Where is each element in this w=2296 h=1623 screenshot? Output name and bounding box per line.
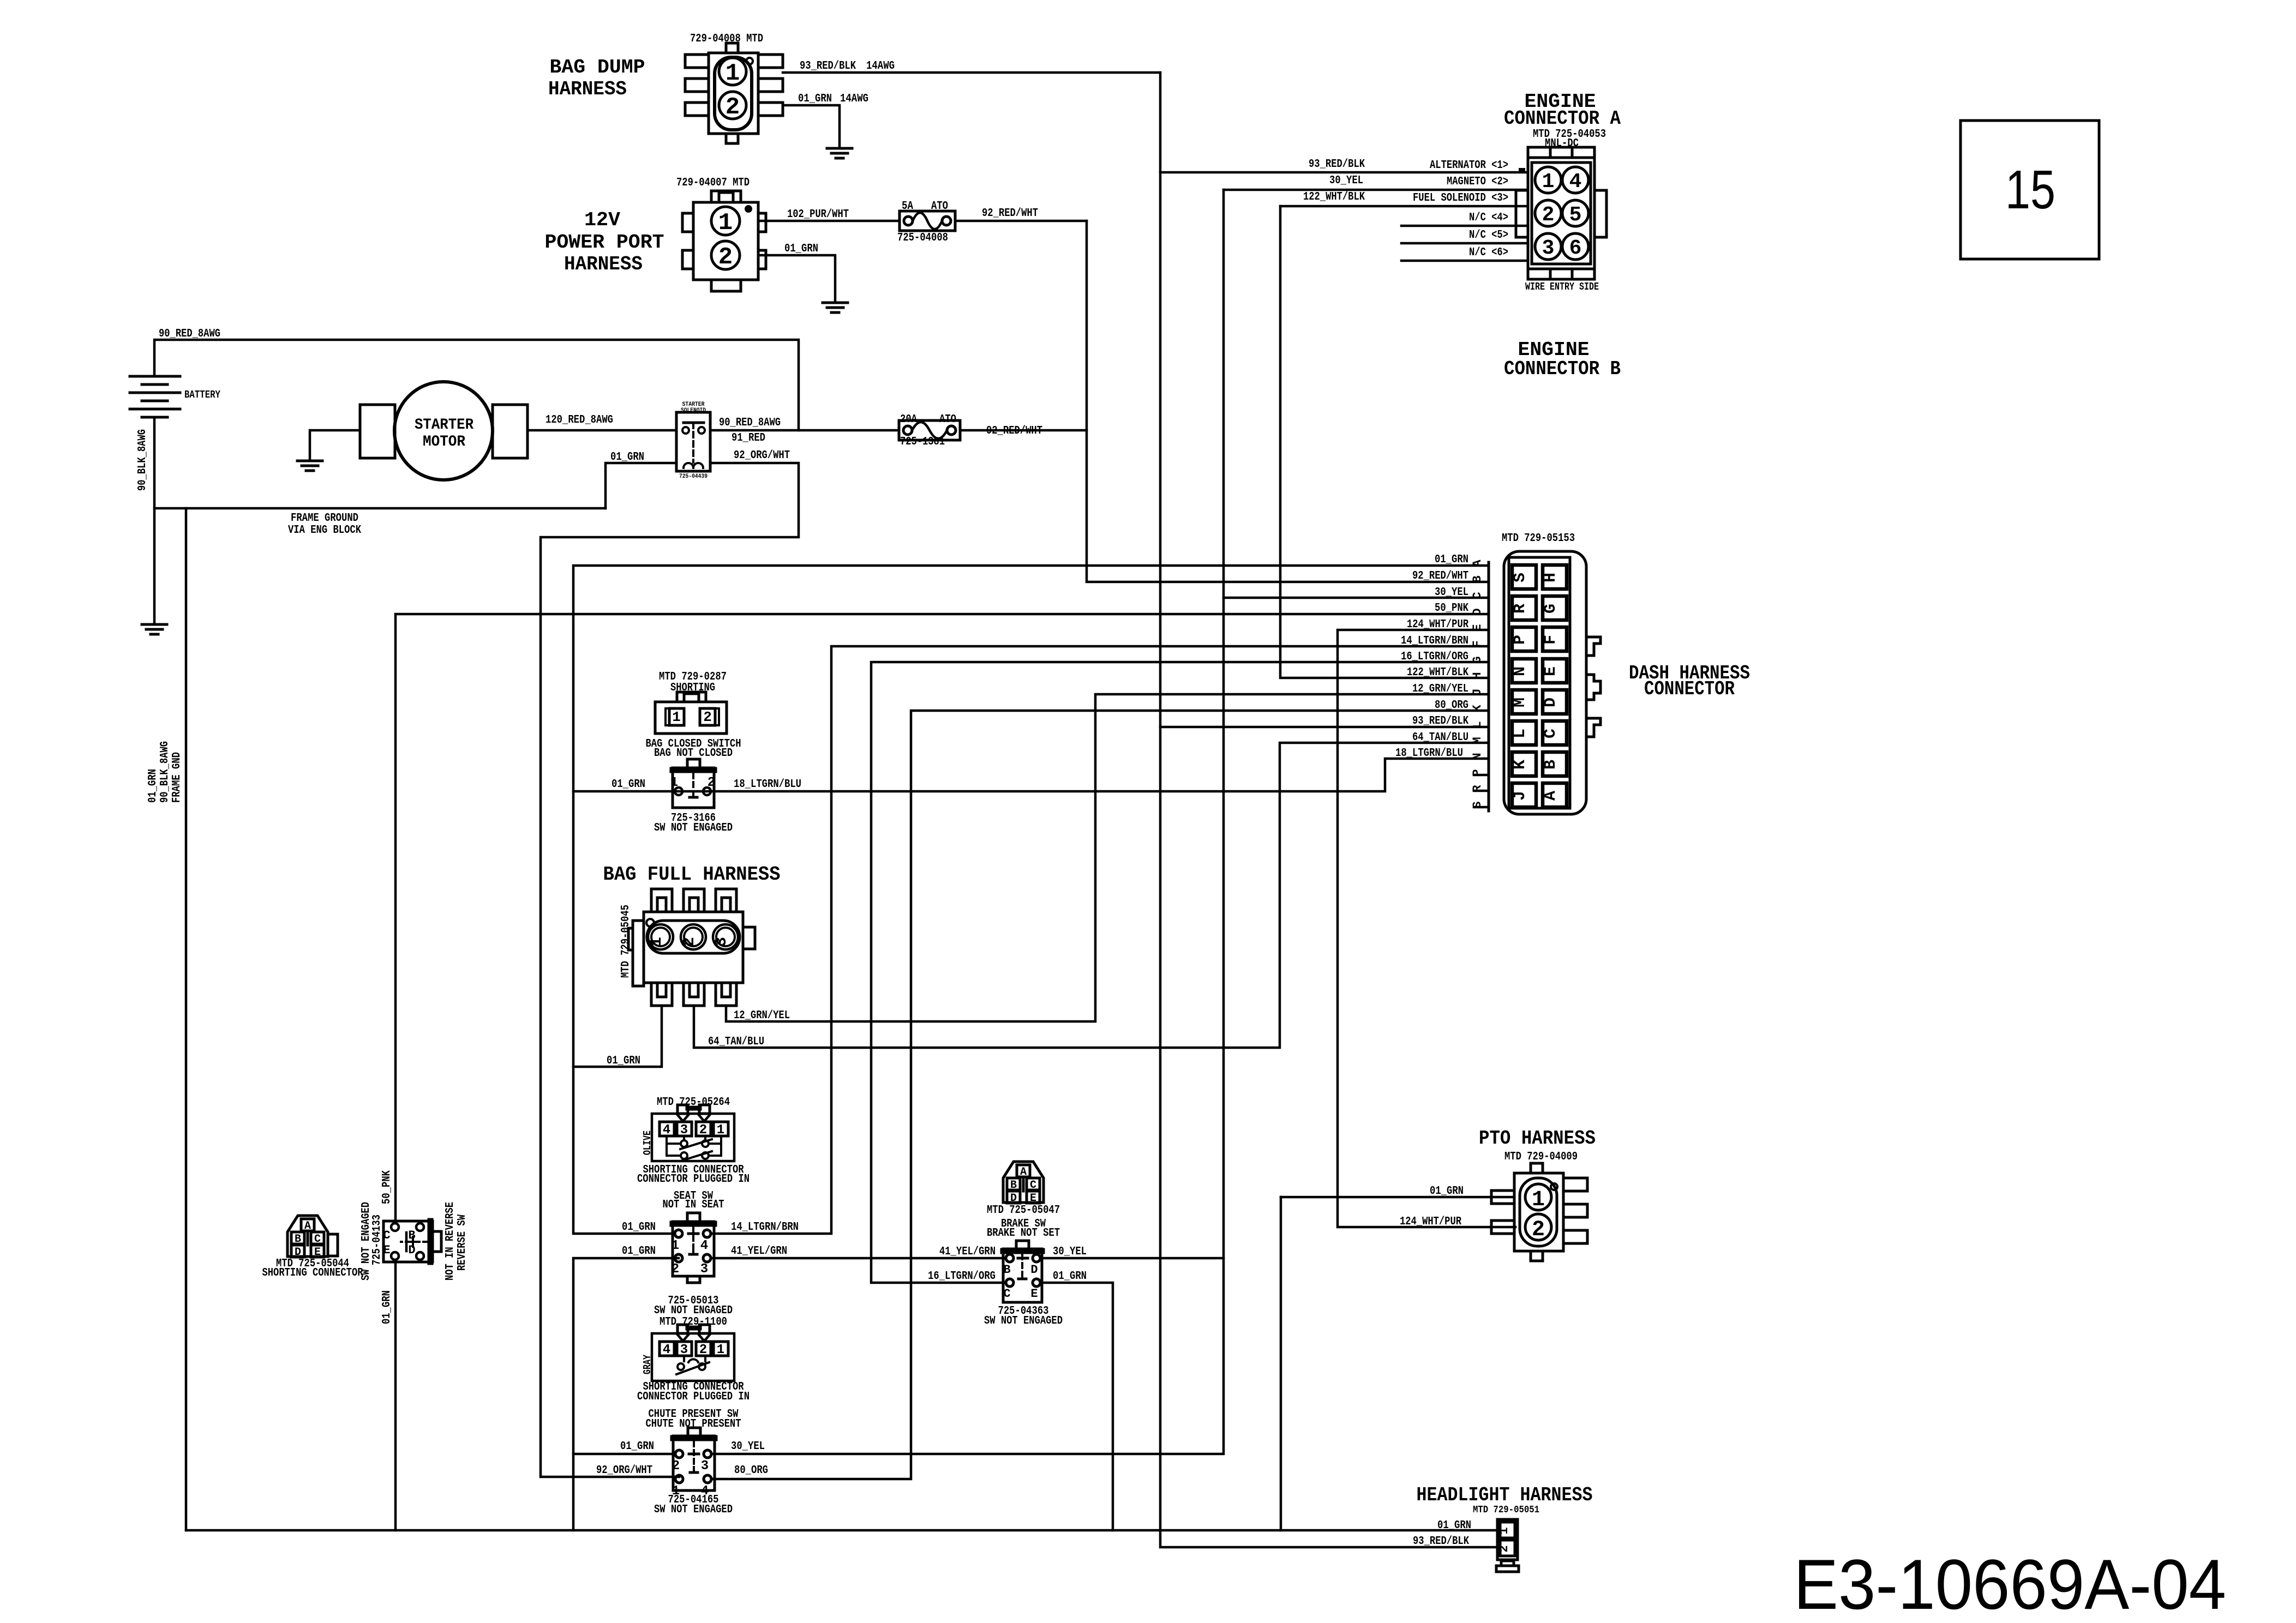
svg-text:E: E [1030, 1192, 1036, 1205]
svg-text:BAG DUMP: BAG DUMP [550, 56, 645, 79]
svg-text:R: R [1471, 785, 1484, 792]
svg-text:MTD 729-05045: MTD 729-05045 [620, 905, 632, 978]
svg-text:CONNECTOR PLUGGED IN: CONNECTOR PLUGGED IN [637, 1173, 750, 1186]
gray internal shorting switch [683, 1356, 685, 1361]
svg-text:92_ORG/WHT: 92_ORG/WHT [596, 1464, 652, 1477]
svg-text:50_PNK: 50_PNK [1435, 602, 1468, 615]
svg-text:4: 4 [663, 1343, 670, 1357]
svg-text:12V: 12V [584, 209, 620, 231]
svg-text:50_PNK: 50_PNK [381, 1170, 393, 1204]
brake pentagon pin A [1017, 1165, 1030, 1177]
brake pentagon pin E [1027, 1191, 1040, 1203]
svg-text:1: 1 [717, 1343, 724, 1357]
svg-text:2: 2 [672, 1459, 680, 1474]
ground 12V port [823, 302, 848, 304]
svg-text:E3-10669A-04: E3-10669A-04 [1794, 1544, 2226, 1623]
wire 122_WHT/BLK trunk down to dash row H [1280, 206, 1489, 678]
svg-text:4: 4 [700, 1239, 708, 1253]
svg-text:HARNESS: HARNESS [548, 78, 627, 100]
svg-text:122_WHT/BLK: 122_WHT/BLK [1407, 666, 1468, 679]
connector J9 reverse pentagon shorting 725-05044 [287, 1216, 328, 1257]
svg-text:CONNECTOR PLUGGED IN: CONNECTOR PLUGGED IN [637, 1391, 750, 1403]
sheet number box 15 [1961, 121, 2099, 259]
dash letter box B [1543, 752, 1567, 776]
svg-text:MTD 729-05153: MTD 729-05153 [1502, 532, 1575, 545]
dash pin letter R stub [1474, 790, 1489, 792]
svg-text:1: 1 [726, 60, 740, 87]
pin E reverse [391, 1252, 399, 1260]
svg-text:1: 1 [670, 776, 678, 790]
pin 4 engine A [1562, 167, 1588, 193]
svg-text:FUEL SOLENOID <3>: FUEL SOLENOID <3> [1413, 192, 1508, 205]
svg-text:C: C [1003, 1287, 1010, 1301]
svg-text:91_RED: 91_RED [732, 432, 765, 444]
svg-text:F: F [1542, 635, 1560, 645]
svg-text:2: 2 [1532, 1218, 1545, 1242]
starter motor M1 [360, 405, 395, 458]
svg-text:H: H [1471, 672, 1484, 679]
svg-text:90_BLK_8AWG: 90_BLK_8AWG [159, 741, 171, 803]
svg-text:4: 4 [1569, 170, 1582, 194]
wire 92_RED/WHT trunk down to dash row B [1087, 221, 1489, 582]
svg-text:N/C <4>: N/C <4> [1469, 212, 1508, 224]
wire 01_GRN PTO trunk to ground bus [1280, 1197, 1282, 1530]
svg-text:VIA ENG BLOCK: VIA ENG BLOCK [288, 524, 361, 537]
svg-text:93_RED/BLK: 93_RED/BLK [1309, 158, 1365, 171]
pin C brake [1006, 1279, 1014, 1287]
dash letter box R [1512, 596, 1536, 620]
svg-text:MAGNETO <2>: MAGNETO <2> [1447, 176, 1508, 188]
dash letter box P [1512, 627, 1536, 651]
svg-text:1: 1 [648, 937, 666, 947]
svg-text:01_GRN: 01_GRN [784, 243, 818, 255]
pin 1 shorting 0287 [669, 708, 684, 725]
connector J11 headlight 729-05051 [1497, 1519, 1518, 1560]
svg-text:S: S [1511, 573, 1530, 582]
svg-text:64_TAN/BLU: 64_TAN/BLU [708, 1036, 764, 1048]
pin 2 bag dump [719, 92, 746, 119]
svg-text:N/C <5>: N/C <5> [1469, 229, 1508, 242]
svg-text:14_LTGRN/BRN: 14_LTGRN/BRN [731, 1221, 799, 1234]
svg-text:14AWG: 14AWG [866, 60, 895, 73]
svg-text:D: D [1542, 698, 1560, 707]
svg-text:2: 2 [718, 244, 733, 271]
svg-text:1: 1 [718, 209, 733, 237]
pin 1 bag closed [675, 788, 682, 795]
svg-text:SW NOT ENGAGED: SW NOT ENGAGED [654, 1305, 733, 1317]
svg-text:725-1381: 725-1381 [900, 436, 945, 448]
connector J10 PTO 729-04009 [1514, 1173, 1563, 1251]
svg-text:3: 3 [700, 1262, 708, 1277]
dash letter box H [1543, 565, 1567, 589]
dash letter box L [1512, 721, 1536, 745]
svg-text:N/C <6>: N/C <6> [1469, 247, 1508, 259]
pin C reverse [391, 1223, 399, 1231]
gray pin box 2 [696, 1342, 711, 1356]
svg-text:14AWG: 14AWG [840, 93, 868, 105]
ground starter frame ground via eng block [297, 460, 322, 462]
pin 3 engine A [1535, 233, 1561, 260]
pin D reverse [416, 1252, 424, 1260]
svg-text:PTO HARNESS: PTO HARNESS [1479, 1127, 1596, 1150]
svg-text:ALTERNATOR <1>: ALTERNATOR <1> [1430, 159, 1508, 172]
svg-text:E: E [1542, 666, 1560, 676]
svg-text:CONNECTOR A: CONNECTOR A [1504, 107, 1621, 130]
svg-text:B: B [408, 1229, 415, 1242]
dash letter box N [1512, 659, 1536, 683]
svg-text:01_GRN: 01_GRN [610, 451, 644, 464]
pin 2 chute [675, 1450, 683, 1458]
ground bag dump [827, 147, 852, 150]
svg-text:93_RED/BLK: 93_RED/BLK [800, 60, 856, 73]
svg-text:P: P [1471, 769, 1484, 776]
svg-text:16_LTGRN/ORG: 16_LTGRN/ORG [928, 1270, 996, 1283]
pin 1 12V port [711, 207, 740, 235]
wire 30_YEL trunk magneto to brake and chute [711, 190, 1224, 1454]
svg-text:N: N [1511, 666, 1530, 676]
svg-text:D: D [1010, 1192, 1017, 1205]
svg-text:90_RED_8AWG: 90_RED_8AWG [719, 417, 781, 429]
connector J3 dash harness body [1504, 551, 1586, 814]
dash letter box M [1512, 690, 1536, 714]
dash letter box C [1543, 721, 1567, 745]
svg-text:WIRE ENTRY SIDE: WIRE ENTRY SIDE [1525, 281, 1599, 293]
dash letter box J [1512, 783, 1536, 807]
svg-text:3: 3 [1542, 237, 1555, 260]
svg-text:K: K [1511, 760, 1530, 770]
svg-text:01_GRN: 01_GRN [147, 769, 159, 803]
bracket right engine A [1594, 190, 1606, 237]
svg-text:93_RED/BLK: 93_RED/BLK [1413, 1535, 1469, 1548]
svg-text:41_YEL/GRN: 41_YEL/GRN [731, 1245, 787, 1258]
svg-text:2: 2 [1497, 1545, 1511, 1552]
svg-text:E: E [383, 1243, 390, 1257]
svg-text:01_GRN: 01_GRN [620, 1440, 654, 1453]
svg-text:80_ORG: 80_ORG [734, 1464, 768, 1477]
svg-text:725-04439: 725-04439 [679, 473, 708, 480]
svg-text:MTD 729-04009: MTD 729-04009 [1504, 1151, 1578, 1163]
dash connector right tabs [1586, 637, 1600, 656]
pin B reverse [416, 1223, 424, 1231]
svg-text:30_YEL: 30_YEL [1329, 175, 1363, 187]
svg-text:BATTERY: BATTERY [184, 389, 220, 401]
svg-text:92_RED/WHT: 92_RED/WHT [1412, 570, 1468, 582]
svg-text:01_GRN: 01_GRN [1435, 554, 1468, 566]
pin 2 bag closed [703, 788, 711, 795]
pin 2 seat [675, 1254, 682, 1262]
svg-text:D: D [408, 1243, 415, 1257]
svg-text:120_RED_8AWG: 120_RED_8AWG [545, 414, 613, 426]
dash pin ladder [1488, 562, 1490, 811]
svg-text:1: 1 [1542, 170, 1555, 194]
gray pin box 4 [660, 1342, 674, 1356]
svg-text:18_LTGRN/BLU: 18_LTGRN/BLU [734, 778, 801, 791]
ground battery frame gnd [142, 623, 167, 626]
svg-text:CONNECTOR: CONNECTOR [1644, 678, 1735, 700]
pin 2 shorting 0287 [700, 708, 715, 725]
svg-text:G: G [1542, 604, 1560, 614]
svg-text:2: 2 [672, 1262, 679, 1277]
olive pin box 3 [677, 1122, 692, 1136]
pin B brake [1006, 1254, 1014, 1262]
svg-text:POWER PORT: POWER PORT [545, 231, 664, 254]
svg-text:D: D [295, 1246, 301, 1259]
svg-text:124_WHT/PUR: 124_WHT/PUR [1400, 1216, 1461, 1228]
pin 1 engine A [1535, 167, 1561, 193]
svg-text:1: 1 [672, 709, 681, 725]
svg-text:15: 15 [2005, 159, 2055, 220]
svg-text:725-04133: 725-04133 [371, 1215, 383, 1265]
connector J8 brake pentagon 725-05047 [1003, 1162, 1044, 1203]
svg-text:01_GRN: 01_GRN [1430, 1185, 1464, 1198]
svg-text:L: L [1511, 729, 1530, 738]
svg-text:2: 2 [703, 709, 712, 725]
svg-text:3: 3 [712, 937, 731, 947]
pin 1 bag full [648, 924, 673, 949]
svg-text:2: 2 [680, 937, 699, 947]
svg-text:90_RED_8AWG: 90_RED_8AWG [159, 328, 220, 340]
svg-text:S: S [1471, 801, 1484, 808]
svg-text:2: 2 [726, 94, 740, 121]
svg-text:93_RED/BLK: 93_RED/BLK [1412, 715, 1468, 728]
svg-text:A: A [1542, 791, 1560, 801]
svg-text:729-04007 MTD: 729-04007 MTD [676, 177, 750, 189]
connector P1 engine A body [1528, 147, 1594, 279]
olive internal shorting switches [667, 1136, 680, 1144]
svg-text:E: E [1030, 1287, 1038, 1301]
svg-text:01_GRN: 01_GRN [381, 1290, 393, 1324]
dash letter box S [1512, 565, 1536, 589]
svg-text:MOTOR: MOTOR [423, 434, 465, 450]
svg-text:REVERSE SW: REVERSE SW [456, 1215, 469, 1271]
svg-text:2: 2 [1542, 203, 1555, 227]
svg-text:BAG FULL HARNESS: BAG FULL HARNESS [603, 863, 781, 886]
svg-text:01_GRN: 01_GRN [612, 778, 645, 791]
svg-text:C: C [383, 1229, 390, 1242]
svg-text:MTD 725-05047: MTD 725-05047 [987, 1204, 1060, 1217]
svg-text:01_GRN: 01_GRN [622, 1245, 656, 1258]
pin 6 engine A [1562, 233, 1588, 260]
svg-text:B: B [1003, 1263, 1010, 1277]
brake pentagon pin C [1027, 1178, 1040, 1190]
pin 4 seat [703, 1230, 711, 1237]
svg-text:R: R [1511, 604, 1530, 614]
pin 5 engine A [1562, 200, 1588, 226]
wire starter motor frame ground [310, 430, 360, 461]
svg-text:P: P [1511, 635, 1530, 645]
brake pentagon pin B [1007, 1178, 1020, 1190]
wire 01_GRN ground bus [186, 1529, 1497, 1532]
svg-text:SW NOT ENGAGED: SW NOT ENGAGED [654, 1504, 733, 1516]
svg-text:12_GRN/YEL: 12_GRN/YEL [734, 1009, 790, 1022]
svg-text:41_YEL/GRN: 41_YEL/GRN [939, 1246, 996, 1258]
svg-text:1: 1 [1497, 1527, 1511, 1534]
dash letter box G [1543, 596, 1567, 620]
svg-text:2: 2 [708, 776, 715, 790]
dash letter box E [1543, 659, 1567, 683]
svg-text:J: J [1511, 791, 1530, 801]
pin 2 engine A [1535, 200, 1561, 226]
svg-text:MTD 729-05051: MTD 729-05051 [1473, 1505, 1539, 1516]
svg-text:M: M [1511, 698, 1530, 707]
olive pin box 2 [696, 1122, 711, 1136]
svg-text:30_YEL: 30_YEL [1053, 1246, 1087, 1258]
svg-text:NOT IN SEAT: NOT IN SEAT [663, 1199, 724, 1211]
svg-text:6: 6 [1569, 237, 1582, 260]
wire 90_BLK_8AWG frame ground bus [154, 507, 606, 510]
gray pin box 3 [677, 1342, 692, 1356]
svg-text:122_WHT/BLK: 122_WHT/BLK [1303, 191, 1365, 203]
svg-text:102_PUR/WHT: 102_PUR/WHT [787, 208, 849, 221]
pin 2 12V port [711, 241, 740, 269]
svg-text:H: H [1542, 573, 1560, 582]
svg-text:92_ORG/WHT: 92_ORG/WHT [734, 449, 790, 462]
svg-text:SHORTING CONNECTOR: SHORTING CONNECTOR [262, 1267, 363, 1279]
pin 1 bag dump [719, 58, 746, 85]
pin 3 chute [704, 1450, 711, 1458]
dash pin letter P stub [1474, 774, 1489, 777]
pin 1 PTO [1525, 1184, 1551, 1210]
bracket left engine A [1516, 190, 1528, 237]
svg-text:SW NOT ENGAGED: SW NOT ENGAGED [984, 1315, 1063, 1327]
pin 1 chute [675, 1475, 683, 1483]
svg-text:5: 5 [1569, 203, 1582, 227]
svg-text:30_YEL: 30_YEL [731, 1440, 765, 1453]
pin 3 seat [703, 1254, 711, 1262]
pin 1 seat [675, 1230, 682, 1237]
svg-text:FRAME GROUND: FRAME GROUND [291, 512, 358, 525]
svg-text:01_GRN: 01_GRN [1053, 1270, 1087, 1283]
dash letter box K [1512, 752, 1536, 776]
svg-text:725-04008: 725-04008 [897, 232, 948, 244]
svg-text:STARTER: STARTER [415, 417, 473, 434]
svg-text:SW NOT ENGAGED: SW NOT ENGAGED [654, 822, 733, 834]
svg-text:3: 3 [701, 1459, 709, 1474]
svg-text:C: C [1542, 729, 1560, 738]
pin 2 PTO [1525, 1214, 1551, 1240]
svg-text:01_GRN: 01_GRN [798, 93, 832, 105]
svg-text:BRAKE NOT SET: BRAKE NOT SET [987, 1227, 1060, 1240]
svg-text:B: B [1471, 575, 1484, 582]
svg-text:HARNESS: HARNESS [564, 253, 643, 275]
wire 93_RED/BLK trunk from bag dump down to headlight [1160, 73, 1497, 1547]
pin E brake [1033, 1279, 1040, 1287]
pin D brake [1033, 1254, 1040, 1262]
dash letter box F [1543, 627, 1567, 651]
svg-text:NOT IN REVERSE: NOT IN REVERSE [444, 1202, 457, 1281]
pin 3 bag full [713, 924, 738, 949]
svg-text:1: 1 [672, 1239, 679, 1253]
svg-text:90_BLK_8AWG: 90_BLK_8AWG [136, 429, 149, 491]
olive pin box 1 [714, 1122, 728, 1136]
svg-text:FRAME GND: FRAME GND [171, 752, 183, 803]
pin 2 bag full [681, 924, 706, 949]
dash pin letter S stub [1474, 806, 1489, 809]
svg-text:CONNECTOR B: CONNECTOR B [1504, 358, 1621, 380]
svg-text:92_RED/WHT: 92_RED/WHT [982, 207, 1038, 220]
pin 4 chute [704, 1475, 711, 1483]
olive pin box 4 [660, 1122, 674, 1136]
svg-text:E: E [314, 1246, 321, 1259]
svg-text:D: D [1030, 1263, 1038, 1277]
svg-text:1: 1 [1532, 1188, 1545, 1212]
brake pentagon pin D [1007, 1191, 1020, 1203]
gray pin box 1 [714, 1342, 728, 1356]
dash letter box D [1543, 690, 1567, 714]
dash letter box A [1543, 783, 1567, 807]
svg-text:B: B [1542, 760, 1560, 770]
svg-text:01_GRN: 01_GRN [607, 1055, 640, 1067]
svg-text:HEADLIGHT HARNESS: HEADLIGHT HARNESS [1417, 1484, 1593, 1506]
svg-text:01_GRN: 01_GRN [622, 1221, 656, 1234]
